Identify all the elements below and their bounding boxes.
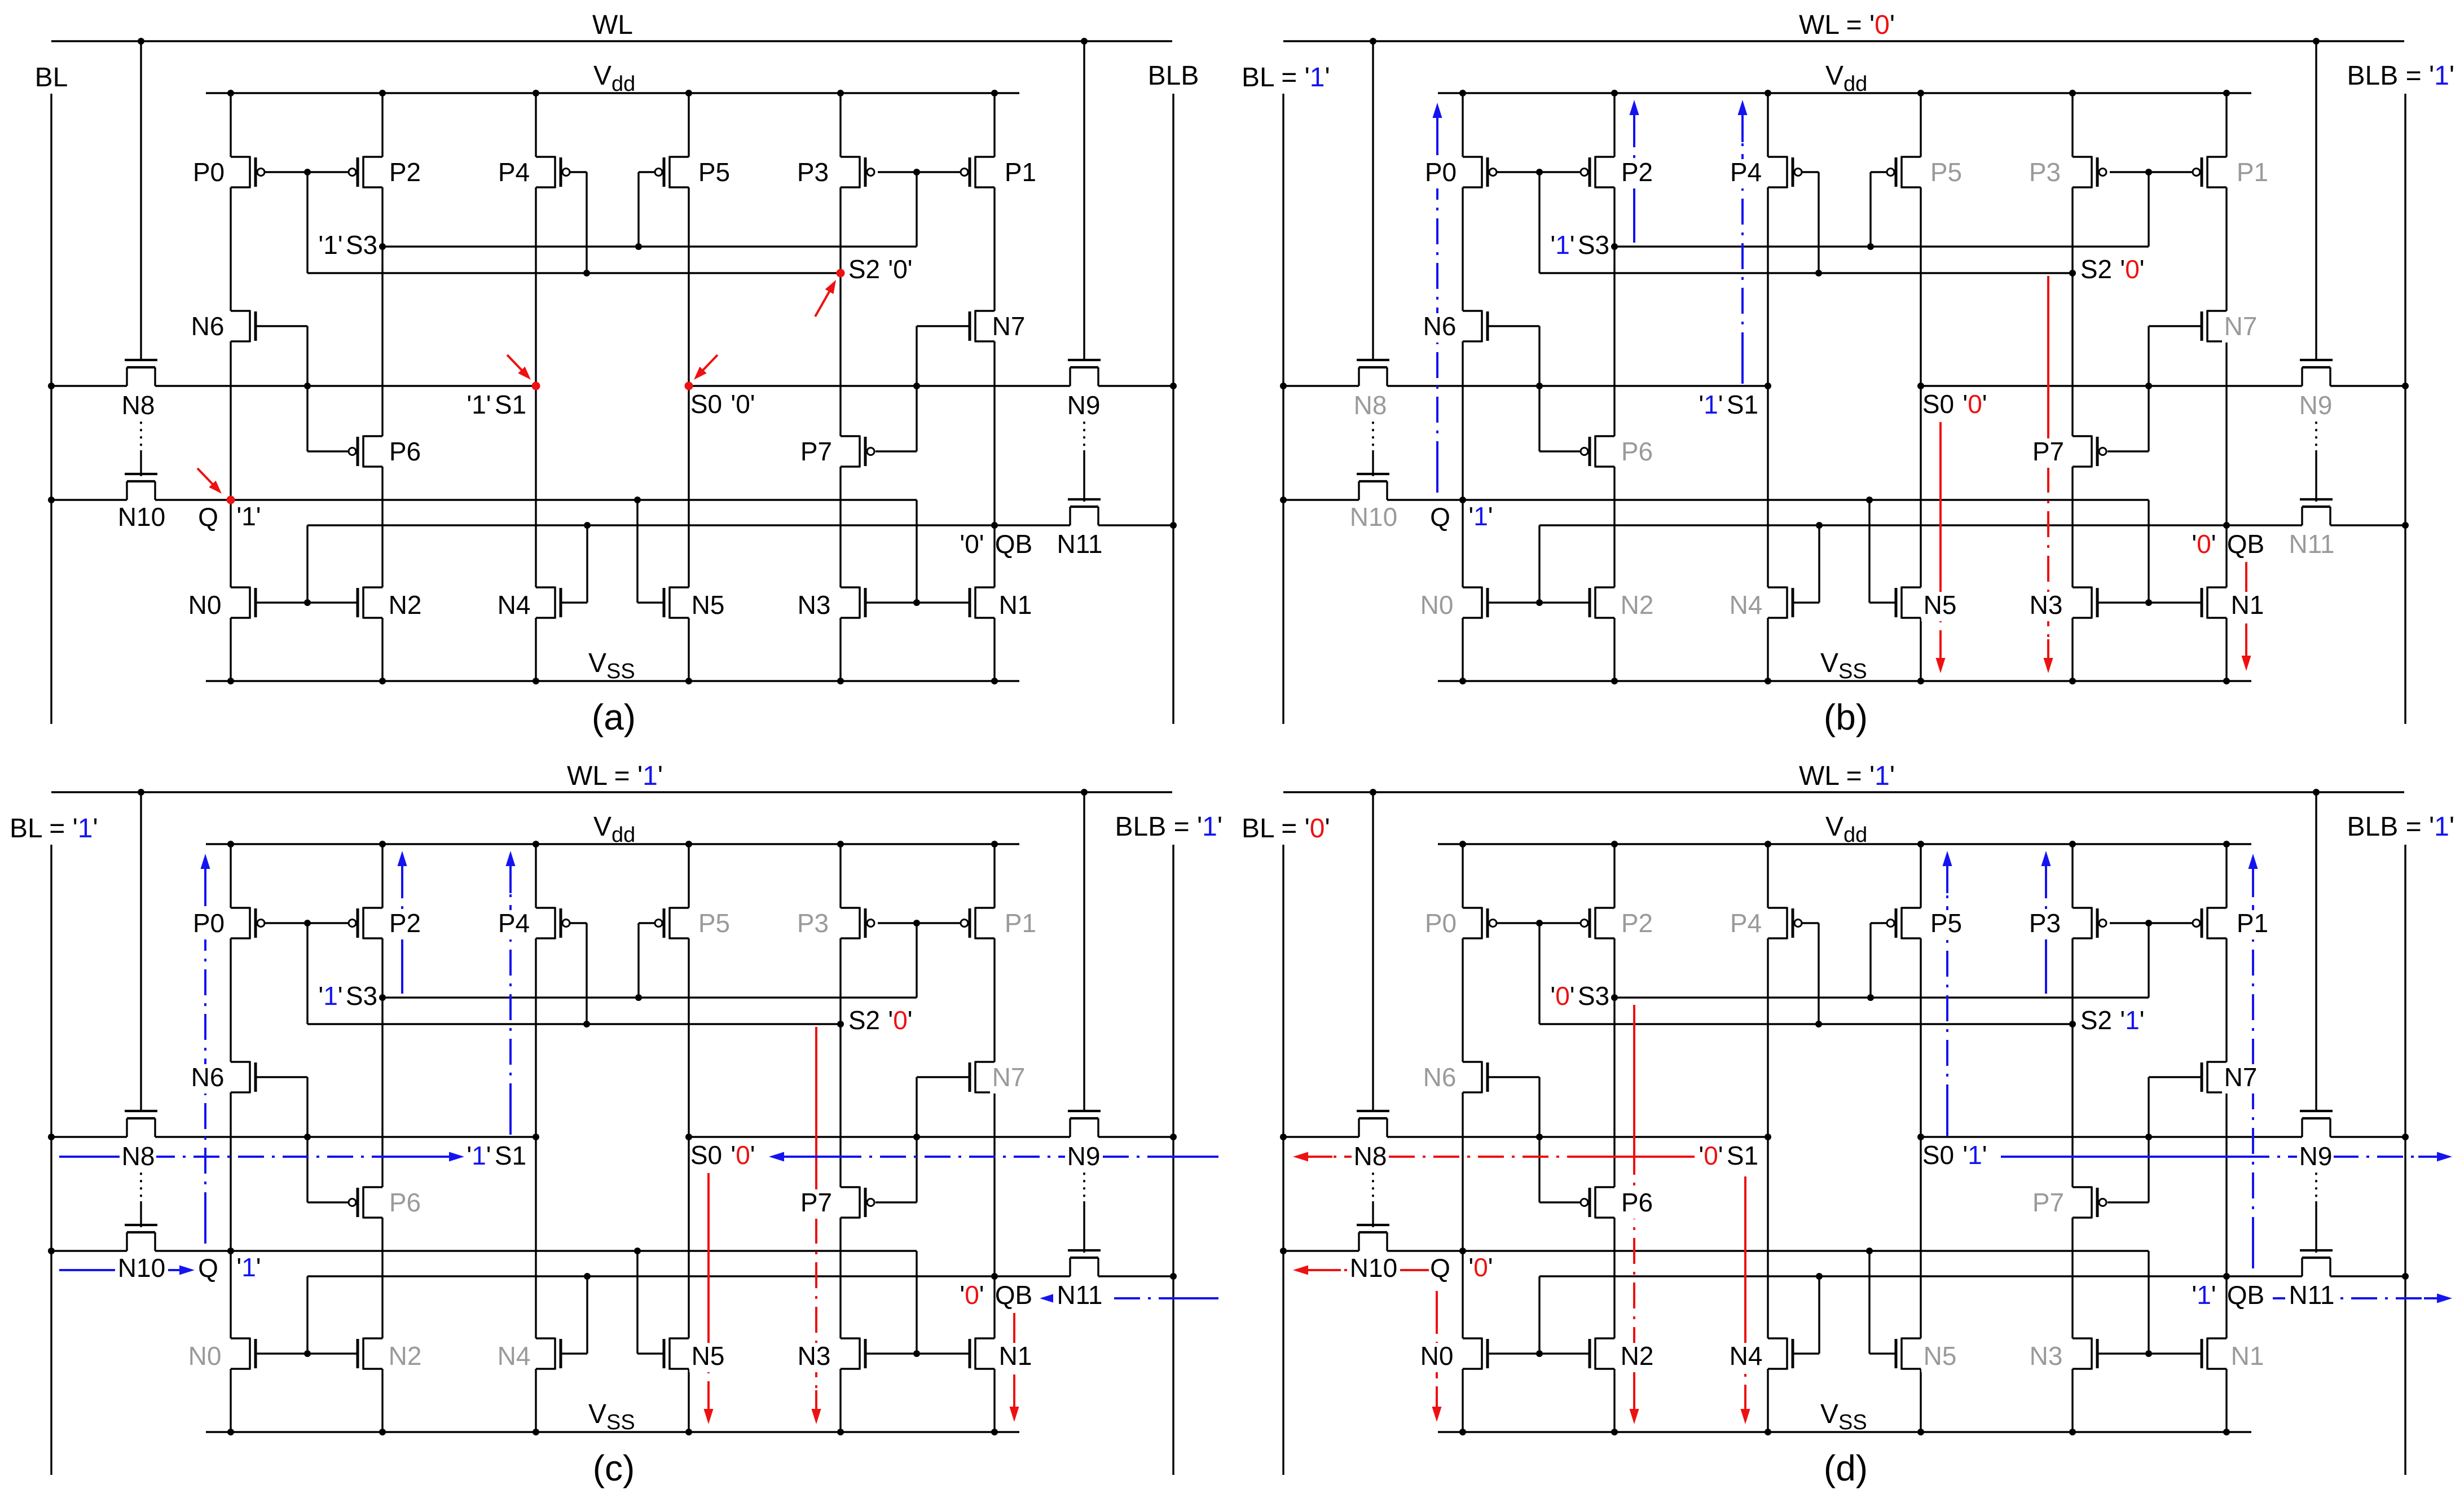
svg-text:N8: N8	[1354, 390, 1387, 420]
svg-text:WL = '0': WL = '0'	[1799, 10, 1895, 40]
label N4	[1727, 1341, 1764, 1372]
node S0 highlighted dot	[685, 382, 693, 390]
junction dots on WL	[138, 789, 1088, 796]
svg-text:P4: P4	[1730, 908, 1762, 938]
net label Q	[1430, 502, 1450, 532]
transistor P2 pmos	[1581, 156, 1614, 188]
net label WL	[592, 10, 633, 40]
svg-text:(a): (a)	[592, 697, 636, 737]
svg-text:P4: P4	[498, 908, 530, 938]
svg-text:P4: P4	[1730, 157, 1762, 187]
label N3	[2027, 1341, 2064, 1372]
node S2 net wire	[307, 172, 841, 273]
transistor N1 nmos	[970, 587, 995, 619]
node S1 row wire	[51, 385, 536, 387]
svg-text:P1: P1	[1005, 908, 1036, 938]
net label Q	[198, 502, 218, 532]
label N1	[2229, 590, 2265, 621]
label N10	[1347, 1253, 1400, 1284]
junction dots on S0 row	[2145, 1134, 2409, 1140]
panel (a) SRAM cell schematic	[0, 0, 1232, 751]
label P6	[389, 437, 421, 466]
junction dots on Q row	[48, 497, 641, 503]
wire column P5/N5 (x=1221)	[1920, 93, 1921, 681]
transistor N7 nmos	[2202, 1061, 2227, 1093]
svg-text:'1': '1'	[236, 1253, 261, 1282]
label N2	[1618, 1341, 1655, 1372]
svg-text:S2: S2	[2080, 1005, 2112, 1035]
wire N3-N1 gate tie to Q	[865, 1352, 970, 1354]
power label Vdd	[593, 61, 635, 96]
label N0	[1418, 1341, 1455, 1372]
svg-text:N5: N5	[1924, 590, 1957, 620]
net label S1	[1727, 1141, 1758, 1170]
svg-text:N3: N3	[2030, 1341, 2063, 1371]
wire N7 gate to S0/P7 gate	[2107, 326, 2202, 451]
svg-text:P4: P4	[498, 157, 530, 187]
net label BLB with value	[2347, 812, 2454, 842]
net label BL with value	[1242, 814, 1330, 844]
net label BLB with value	[1115, 812, 1222, 842]
panel (b) SRAM cell schematic	[1232, 0, 2464, 751]
transistor N7 nmos	[970, 310, 995, 342]
svg-text:P1: P1	[1005, 157, 1036, 187]
wire gate tie P3-P1	[878, 922, 961, 924]
transistor N1 nmos	[2202, 1338, 2227, 1370]
transistor P0 pmos	[231, 156, 265, 188]
transistor N8 pass gate	[125, 360, 157, 386]
node S1 highlighted dot	[532, 382, 540, 390]
arrow current QB down through N1 to VSS	[2242, 562, 2251, 671]
net label QB	[2227, 1280, 2264, 1310]
label N8	[120, 1141, 156, 1172]
label N6	[1421, 311, 1458, 342]
svg-text:P7: P7	[800, 437, 832, 466]
svg-text:N3: N3	[2030, 590, 2063, 620]
net label BL with value	[10, 814, 98, 844]
value at Q	[236, 502, 261, 531]
junction dots on S3	[1611, 994, 1874, 1001]
wire WL gate stem left (N8/N10 gates)	[1372, 792, 1374, 1111]
net label QB	[2227, 529, 2264, 559]
svg-text:WL = '1': WL = '1'	[1799, 761, 1895, 791]
svg-text:P0: P0	[1425, 157, 1457, 187]
junction dots on S3	[1611, 243, 1874, 250]
junction dots on S0 row	[913, 383, 1177, 389]
svg-text:S3: S3	[346, 230, 377, 260]
value at QB	[960, 1280, 984, 1310]
wire column P1/N7/N1 (x=1763)	[2225, 844, 2227, 1432]
wire BL bit line	[1282, 94, 1284, 724]
svg-text:N10: N10	[1350, 1253, 1397, 1283]
label P0	[1422, 157, 1459, 188]
net label BLB with value	[2347, 61, 2454, 91]
svg-text:BLB = '1': BLB = '1'	[2347, 61, 2454, 91]
value at QB	[960, 529, 984, 559]
transistor N10 pass gate	[125, 474, 157, 500]
node Q highlighted dot	[227, 496, 235, 504]
label P4	[495, 908, 532, 939]
node S3 net wire	[382, 172, 917, 247]
label N0	[186, 1341, 223, 1372]
svg-text:N11: N11	[1057, 1280, 1103, 1310]
value at Q	[1468, 1253, 1493, 1282]
node Q row wire	[51, 500, 917, 603]
label N11	[1053, 1280, 1106, 1311]
transistor P6 pmos	[349, 436, 382, 468]
wire VSS ground rail	[1438, 1431, 2251, 1433]
label N10	[118, 502, 165, 532]
label P7	[2030, 437, 2066, 468]
transistor P5 pmos	[1887, 156, 1921, 188]
arrow current P1 path up to Vdd	[2249, 854, 2258, 1268]
wire P4 gate to S2	[1802, 923, 1819, 1024]
svg-text:P7: P7	[2032, 1188, 2064, 1217]
wire BLB bit line bar	[1172, 845, 1174, 1475]
junction dots on S0 row	[2145, 383, 2409, 389]
svg-text:'1': '1'	[1550, 230, 1574, 260]
transistor N6 nmos	[1463, 310, 1488, 342]
transistor P1 pmos	[2193, 156, 2227, 188]
svg-text:QB: QB	[995, 1280, 1032, 1310]
wire column P2/P6/N2 (x=678)	[1613, 93, 1615, 681]
wire N3-N1 gate tie to Q	[865, 601, 970, 603]
svg-text:P5: P5	[698, 908, 730, 938]
value at Q	[1468, 502, 1493, 531]
svg-text:N9: N9	[1067, 390, 1101, 420]
wire column P3/P7/N3 (x=1490)	[839, 93, 841, 681]
label N4	[1727, 590, 1764, 621]
svg-text:Q: Q	[198, 1253, 218, 1283]
transistor P0 pmos	[1463, 907, 1497, 939]
svg-text:N5: N5	[1924, 1341, 1957, 1371]
net label WL with value	[1799, 761, 1895, 791]
wire N0-N2 gate tie to QB	[256, 601, 358, 603]
net label Q	[198, 1253, 218, 1283]
node Q dot	[227, 1248, 234, 1254]
wire VSS ground rail	[206, 1431, 1019, 1433]
svg-text:WL = '1': WL = '1'	[567, 761, 663, 791]
wire dotted gate tie N9-N11	[2315, 1174, 2317, 1253]
wire column P0/N6/N0 (x=409)	[1462, 93, 1463, 681]
svg-text:N1: N1	[999, 590, 1032, 620]
node S1 dot	[533, 1134, 539, 1140]
label N7	[992, 311, 1026, 341]
junction dot N0-N2 gate tie	[304, 599, 311, 606]
junction dot N0-N2 gate tie	[1536, 599, 1543, 606]
svg-text:Q: Q	[1430, 1253, 1450, 1283]
arrow pointing to node S1	[507, 355, 531, 380]
junction dot P4 gate on S2	[583, 270, 590, 276]
node S2 net wire	[307, 923, 841, 1024]
svg-text:'0': '0'	[1699, 1141, 1723, 1170]
svg-text:QB: QB	[2227, 1280, 2264, 1310]
net label S3	[1578, 230, 1609, 260]
node S0 row wire	[689, 1136, 1173, 1138]
value at S1	[467, 1141, 491, 1170]
wire P4 gate to S2	[1802, 172, 1819, 273]
value at S0	[1963, 1140, 1987, 1170]
arrow current S0 through N9 to BLB	[2001, 1152, 2452, 1162]
transistor P5 pmos	[655, 156, 689, 188]
svg-text:'1': '1'	[467, 390, 491, 419]
wire N5 gate to Q	[1869, 1251, 1895, 1354]
svg-text:'0': '0'	[1550, 981, 1574, 1011]
wire dotted gate tie N8-N10	[1372, 423, 1374, 476]
transistor P4 pmos	[536, 156, 570, 188]
wire N6 gate to S1/P6 gate	[256, 1077, 349, 1202]
caption panel letter	[1824, 697, 1868, 737]
arrow current P0 path up to Vdd	[201, 854, 210, 1244]
wire column P0/N6/N0 (x=409)	[230, 844, 231, 1432]
svg-text:BL: BL	[35, 63, 68, 93]
value at S0	[731, 1140, 755, 1170]
wire column P2/P6/N2 (x=678)	[1613, 844, 1615, 1432]
svg-text:S3: S3	[346, 981, 377, 1011]
svg-text:P3: P3	[797, 908, 829, 938]
wire gate tie P0-P2	[264, 922, 349, 924]
label N1	[999, 590, 1032, 620]
wire WL word line	[1283, 791, 2404, 793]
svg-text:'0': '0'	[731, 1140, 755, 1170]
svg-text:N5: N5	[692, 590, 725, 620]
transistor N4 nmos	[1768, 1338, 1793, 1370]
net label S1	[1727, 390, 1758, 419]
label P3	[2026, 157, 2063, 188]
transistor P7 pmos	[2073, 1187, 2106, 1219]
label N6	[189, 1062, 226, 1093]
junction dot gate tie P3-P1 at S3 stem	[913, 920, 920, 926]
junction dots on S3	[379, 243, 642, 250]
svg-text:P0: P0	[193, 908, 225, 938]
wire P4 gate to S2	[570, 172, 587, 273]
net label BL with value	[1242, 63, 1330, 93]
transistor N9 pass gate	[2300, 1111, 2333, 1137]
node S1 row wire	[51, 1136, 536, 1138]
junction dot N3-N1 gate tie	[913, 599, 920, 606]
wire P5 gate to S3	[1871, 172, 1887, 247]
value at S3	[318, 230, 342, 260]
wire WL word line	[1283, 40, 2404, 42]
transistor P1 pmos	[961, 907, 995, 939]
label N2	[386, 1341, 423, 1372]
label P0	[193, 157, 225, 187]
junction dots on S1 row	[48, 1134, 311, 1140]
junction dot gate tie P3-P1 at S3 stem	[2145, 169, 2152, 175]
junction dots on WL	[1370, 789, 2320, 796]
wire VSS ground rail	[206, 680, 1019, 682]
svg-text:N4: N4	[498, 1341, 531, 1371]
wire WL gate stem left (N8/N10 gates)	[140, 41, 142, 360]
svg-text:N2: N2	[389, 1341, 422, 1371]
svg-text:N0: N0	[1420, 1341, 1454, 1371]
svg-text:N2: N2	[1621, 1341, 1654, 1371]
wire N3-N1 gate tie to Q	[2097, 601, 2202, 603]
wire P5 gate to S3	[1871, 923, 1887, 998]
wire N7 gate to S0/P7 gate	[875, 1077, 970, 1202]
node S0 dot	[1917, 383, 1924, 389]
svg-text:S0: S0	[1922, 389, 1954, 419]
label P1	[1002, 908, 1039, 939]
node S1 row wire	[1283, 385, 1768, 387]
svg-text:N4: N4	[1730, 1341, 1763, 1371]
value at S3	[1550, 981, 1574, 1011]
junction dots on Q row	[1280, 497, 1873, 503]
arrow current P4 path up to Vdd	[506, 851, 516, 1135]
transistor N6 nmos	[231, 310, 256, 342]
net label WL with value	[1799, 10, 1895, 40]
arrow current P5 path up to Vdd	[1943, 851, 1952, 1136]
transistor P1 pmos	[961, 156, 995, 188]
label N2	[1618, 590, 1655, 621]
label N5	[692, 590, 725, 620]
label P3	[797, 157, 829, 187]
svg-text:N8: N8	[1354, 1141, 1387, 1171]
transistor P5 pmos	[1887, 907, 1921, 939]
svg-text:BL = '1': BL = '1'	[1242, 63, 1330, 93]
svg-text:QB: QB	[995, 529, 1032, 559]
arrow current BL through N10 to Q	[59, 1266, 195, 1275]
net label BLB	[1148, 61, 1199, 91]
wire column P5/N5 (x=1221)	[688, 844, 689, 1432]
transistor N6 nmos	[231, 1061, 256, 1093]
label P1	[1005, 157, 1036, 187]
junction dots on WL	[138, 38, 1088, 45]
wire column P3/P7/N3 (x=1490)	[839, 844, 841, 1432]
label N6	[191, 311, 225, 341]
node Q row wire	[51, 1251, 917, 1354]
wire N5 gate to Q	[1869, 500, 1895, 603]
transistor N3 nmos	[841, 587, 865, 619]
caption panel letter	[593, 1448, 635, 1488]
junction dot N3-N1 gate tie	[2145, 599, 2152, 606]
node Q dot	[1459, 497, 1466, 503]
wire N0-N2 gate tie to QB	[1488, 1352, 1590, 1354]
net label S1	[495, 390, 526, 419]
transistor P2 pmos	[349, 907, 382, 939]
svg-text:QB: QB	[2227, 529, 2264, 559]
transistor N7 nmos	[2202, 310, 2227, 342]
svg-text:P3: P3	[2029, 908, 2061, 938]
junction dot gate tie P0-P2 at S2 stem	[1536, 169, 1543, 175]
svg-text:N7: N7	[992, 1062, 1026, 1092]
svg-text:N6: N6	[191, 1062, 225, 1092]
svg-text:'1': '1'	[1963, 1140, 1987, 1170]
wire N6 gate to S1/P6 gate	[256, 326, 349, 451]
label N7	[2222, 311, 2259, 342]
svg-text:'0': '0'	[2192, 529, 2216, 559]
junction dots on S1 row	[1280, 383, 1543, 389]
junction dots on Q row	[1280, 1248, 1873, 1254]
power label Vdd	[1825, 61, 1867, 96]
svg-text:N0: N0	[188, 1341, 222, 1371]
wire WL gate stem left (N8/N10 gates)	[140, 792, 142, 1111]
svg-text:N1: N1	[999, 1341, 1032, 1371]
wire column P5/N5 (x=1221)	[1920, 844, 1921, 1432]
junction dots on QB row	[584, 1273, 1177, 1280]
svg-text:'0': '0'	[731, 389, 755, 419]
svg-text:P0: P0	[1425, 908, 1457, 938]
transistor P0 pmos	[231, 907, 265, 939]
transistor N8 pass gate	[125, 1111, 157, 1137]
transistor P6 pmos	[349, 1187, 382, 1219]
wire N6 gate to S1/P6 gate	[1488, 326, 1581, 451]
transistor N4 nmos	[1768, 587, 1793, 619]
wire Vdd power rail	[1438, 843, 2251, 845]
junction dots on Vdd rail	[227, 90, 998, 96]
svg-text:N10: N10	[118, 1253, 165, 1283]
junction dots on Q row	[48, 1248, 641, 1254]
wire column P0/N6/N0 (x=409)	[1462, 844, 1463, 1432]
node S2 highlighted dot	[837, 269, 845, 278]
arrow current Q through N10 to BL	[1293, 1266, 1429, 1275]
transistor N7 nmos	[970, 1061, 995, 1093]
wire gate tie P0-P2	[264, 171, 349, 173]
arrow current BL through N8 to S1	[59, 1152, 464, 1162]
value at S2	[888, 1005, 912, 1035]
value at S1	[1699, 1141, 1723, 1170]
wire WL word line	[51, 40, 1172, 42]
label P2	[1618, 157, 1655, 188]
svg-text:'1': '1'	[318, 981, 342, 1011]
arrow current P4 path up to Vdd	[1738, 100, 1748, 384]
transistor N0 nmos	[231, 587, 256, 619]
label N10	[1347, 502, 1400, 533]
wire N5 gate to Q	[637, 1251, 663, 1354]
wire N7 gate to S0/P7 gate	[875, 326, 970, 451]
svg-text:N3: N3	[798, 1341, 831, 1371]
label N8	[1352, 390, 1388, 421]
svg-text:'0': '0'	[960, 1280, 984, 1310]
svg-text:BLB: BLB	[1148, 61, 1199, 91]
svg-text:N11: N11	[1057, 529, 1103, 559]
net label Q	[1430, 1253, 1450, 1283]
node S2 dot	[2069, 270, 2076, 276]
transistor N11 pass gate	[1068, 1250, 1101, 1276]
net label WL with value	[567, 761, 663, 791]
svg-text:N2: N2	[1621, 590, 1654, 620]
ground label VSS	[1820, 648, 1867, 683]
junction dot gate tie P0-P2 at S2 stem	[1536, 920, 1543, 926]
junction dots on Vdd rail	[1459, 841, 2230, 847]
transistor N3 nmos	[841, 1338, 865, 1370]
wire WL gate stem right (N9/N11 gates)	[2315, 41, 2317, 360]
wire dotted gate tie N9-N11	[2315, 423, 2317, 502]
junction dot gate tie P0-P2 at S2 stem	[304, 920, 311, 926]
arrow current S3 down through P6/N2 to VSS	[1630, 1005, 1639, 1424]
transistor P4 pmos	[1768, 907, 1802, 939]
transistor N5 nmos	[1896, 1338, 1921, 1370]
transistor P2 pmos	[349, 156, 382, 188]
svg-text:S0: S0	[690, 1140, 722, 1170]
node S1 row wire	[1283, 1136, 1768, 1138]
arrow current QB through N11 to BLB	[2273, 1294, 2452, 1303]
value at S3	[318, 981, 342, 1011]
svg-text:P2: P2	[389, 157, 421, 187]
svg-text:P3: P3	[797, 157, 829, 187]
transistor N10 pass gate	[125, 1225, 157, 1251]
node QB row wire	[307, 1276, 1173, 1354]
svg-text:'1': '1'	[2120, 1005, 2144, 1035]
transistor N4 nmos	[536, 1338, 561, 1370]
transistor N11 pass gate	[2300, 499, 2333, 525]
label N0	[1418, 590, 1455, 621]
value at QB	[2192, 1280, 2216, 1310]
svg-text:N9: N9	[2299, 390, 2333, 420]
svg-text:S1: S1	[495, 1141, 526, 1170]
svg-text:N11: N11	[2289, 529, 2335, 559]
wire gate tie P3-P1	[878, 171, 961, 173]
